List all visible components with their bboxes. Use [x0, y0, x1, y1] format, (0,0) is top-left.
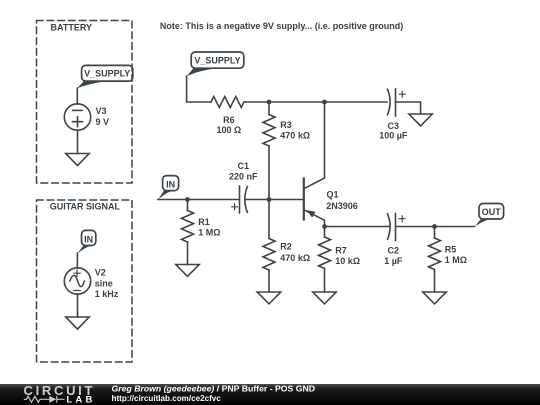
svg-text:C2: C2 [388, 245, 400, 255]
net flag V_SUPPLY (battery) [77, 65, 133, 88]
wire R6 to node A [244, 101, 269, 103]
svg-text:1 µF: 1 µF [384, 256, 403, 266]
svg-text:R1: R1 [198, 217, 210, 227]
ground (R2) [257, 292, 280, 304]
guitar signal enclosure box [37, 200, 133, 362]
capacitor C3 [388, 89, 406, 116]
resistor R1 [182, 200, 194, 265]
wire V3 to ground [77, 130, 79, 154]
svg-text:1 MΩ: 1 MΩ [198, 227, 220, 237]
source V2 sine [64, 268, 90, 294]
battery enclosure box [37, 21, 133, 184]
net flag V_SUPPLY (main) [187, 52, 244, 76]
footer bar [0, 384, 540, 405]
svg-text:R5: R5 [445, 244, 457, 254]
net flag OUT [475, 204, 503, 227]
wire C1 to base node [245, 199, 269, 201]
svg-text:R2: R2 [280, 241, 292, 251]
wire flag to V2 [76, 253, 78, 268]
svg-text:IN: IN [166, 179, 175, 189]
resistor R7 [319, 227, 331, 293]
ground (R7) [313, 292, 336, 304]
svg-text:http://circuitlab.com/ce2cfvc: http://circuitlab.com/ce2cfvc [112, 394, 222, 403]
svg-text:1 kHz: 1 kHz [95, 289, 119, 299]
ground (battery) [66, 154, 89, 166]
svg-text:C3: C3 [388, 121, 400, 131]
wire C3 to ground [396, 102, 421, 114]
ground (guitar) [66, 317, 89, 329]
svg-text:GUITAR SIGNAL: GUITAR SIGNAL [50, 201, 121, 211]
svg-text:OUT: OUT [482, 207, 502, 217]
node R1 junction dot [185, 197, 190, 202]
svg-text:470 kΩ: 470 kΩ [280, 131, 310, 141]
collector wire node B down to Q1 [305, 102, 325, 188]
wire flag down to rail [187, 76, 211, 102]
net flag IN (main) [158, 176, 178, 200]
node B junction dot [322, 100, 327, 105]
logo resistor + diode glyph [24, 396, 65, 403]
svg-text:9 V: 9 V [96, 117, 110, 127]
emitter node junction dot [322, 224, 327, 229]
svg-text:sine: sine [95, 278, 113, 288]
svg-text:V_SUPPLY: V_SUPPLY [84, 69, 130, 79]
resistor R3 [263, 102, 275, 200]
base wire to Q1 [269, 199, 302, 201]
svg-text:470 kΩ: 470 kΩ [280, 253, 310, 263]
ground (C3) [409, 114, 432, 126]
svg-text:10 kΩ: 10 kΩ [335, 256, 360, 266]
wire node A to node B [269, 101, 325, 103]
svg-text:C1: C1 [238, 161, 250, 171]
net flag IN (guitar) [77, 230, 95, 253]
wire node B to C3 [325, 101, 388, 103]
ground (R5) [423, 292, 446, 304]
svg-text:Q1: Q1 [327, 190, 339, 200]
ground (R1) [176, 265, 199, 277]
svg-text:R7: R7 [335, 245, 347, 255]
wire C2 to out node [396, 226, 475, 228]
out node junction dot [432, 224, 437, 229]
resistor R6 [211, 97, 244, 108]
svg-text:1 MΩ: 1 MΩ [445, 255, 467, 265]
node A junction dot [267, 100, 272, 105]
resistor R2 [263, 200, 275, 293]
svg-text:Note: This is a negative 9V su: Note: This is a negative 9V supply... (i… [160, 21, 403, 31]
wire emitter node to C2 [325, 226, 390, 228]
wire V2 to ground [77, 294, 79, 317]
svg-text:220 nF: 220 nF [229, 171, 258, 181]
svg-text:IN: IN [84, 234, 93, 244]
resistor R5 [429, 227, 441, 293]
svg-text:V_SUPPLY: V_SUPPLY [194, 56, 240, 66]
base node junction dot [267, 197, 272, 202]
svg-text:100 Ω: 100 Ω [217, 125, 242, 135]
svg-text:Greg Brown (geedeebee) / PNP B: Greg Brown (geedeebee) / PNP Buffer - PO… [112, 383, 316, 393]
svg-text:V2: V2 [95, 268, 106, 278]
svg-text:100 µF: 100 µF [379, 131, 408, 141]
voltage source V3 [64, 104, 90, 130]
wire IN to C1 [158, 199, 239, 201]
transistor Q1 [304, 179, 325, 227]
svg-text:V3: V3 [96, 106, 107, 116]
svg-text:LAB: LAB [66, 394, 95, 405]
svg-text:BATTERY: BATTERY [51, 22, 93, 32]
svg-text:R6: R6 [223, 115, 235, 125]
capacitor C2 [388, 214, 406, 241]
svg-text:R3: R3 [280, 120, 292, 130]
svg-text:2N3906: 2N3906 [326, 201, 358, 211]
capacitor C1 [232, 186, 248, 213]
wire flag to V3 [76, 88, 78, 104]
